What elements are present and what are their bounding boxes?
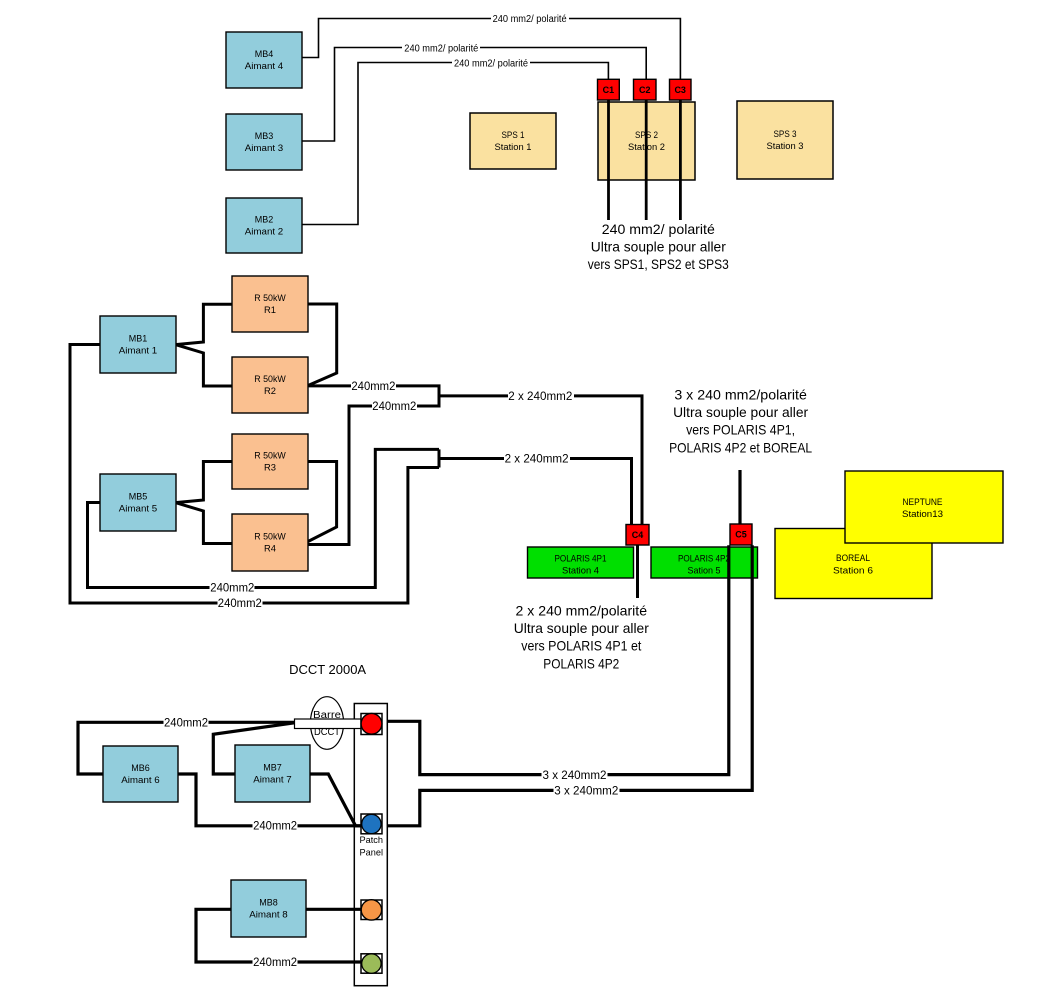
note cables to POLARIS/BOREAL [669,387,812,456]
svg-text:Aimant 7: Aimant 7 [253,775,292,786]
svg-text:2 x 240mm2: 2 x 240mm2 [508,391,572,403]
svg-text:MB7: MB7 [263,763,282,774]
svg-text:Aimant 2: Aimant 2 [245,227,284,238]
station POLARIS 4P2 [651,547,758,578]
label 3 x 240mm2 (upper) [542,769,608,782]
label 240mm2 (barre wire) [164,716,209,730]
wire MB1 to R1 R2 (wedge) [175,304,232,386]
svg-text:C1: C1 [603,85,615,96]
wire MB8 left loop to green point [196,909,361,962]
svg-text:240mm2: 240mm2 [372,401,416,413]
svg-text:240mm2: 240mm2 [210,583,254,595]
label 2 x 240mm2 (lower) [504,453,570,466]
label 2 x 240mm2 (upper) [508,390,574,403]
magnet MB7 [235,745,310,802]
svg-text:3 x 240mm2: 3 x 240mm2 [554,786,618,798]
label 240mm2 (MB1 loop) [218,597,263,611]
svg-text:POLARIS 4P1: POLARIS 4P1 [555,553,607,564]
svg-text:Ultra souple pour aller: Ultra souple pour aller [514,620,649,636]
junction2 bar [438,449,441,467]
svg-text:240mm2: 240mm2 [351,381,395,393]
svg-text:Station13: Station13 [902,509,943,520]
wire MB4 to C3 [302,19,680,80]
svg-text:R 50kW: R 50kW [254,374,286,385]
wire C4 down stub [636,545,639,598]
svg-text:Aimant 3: Aimant 3 [245,143,284,154]
cable drop from C1 [607,100,610,220]
svg-text:MB5: MB5 [129,492,148,503]
wire MB7 right to blue point [310,774,361,826]
wire R1 right join R2 [308,304,337,386]
label 240mm2 (blue wire) [253,819,298,833]
magnet MB4 [226,32,302,88]
station SPS2 [598,102,695,180]
station BOREAL [775,529,932,599]
svg-text:R 50kW: R 50kW [254,451,286,462]
wire MB1 left loop to junction2 [70,345,439,604]
resistor R4 [232,514,308,571]
wire MB6 left loop to barre [78,722,295,774]
svg-text:Aimant 5: Aimant 5 [119,504,158,515]
magnet MB2 [226,198,302,253]
svg-text:MB3: MB3 [255,131,274,142]
svg-text:R2: R2 [264,386,276,397]
svg-text:POLARIS 4P2: POLARIS 4P2 [678,553,730,564]
label 240mm2 (R4 wire) [372,400,417,414]
svg-text:NEPTUNE: NEPTUNE [903,497,943,508]
wire R3 right join R4 [308,462,337,542]
svg-text:MB8: MB8 [259,898,278,909]
svg-text:MB1: MB1 [129,334,148,345]
svg-text:vers SPS1, SPS2 et SPS3: vers SPS1, SPS2 et SPS3 [588,256,729,272]
svg-text:BOREAL: BOREAL [836,553,871,564]
svg-text:MB2: MB2 [255,215,274,226]
wire MB3 to C2 [302,48,646,142]
wire C5 up stub [738,470,741,524]
note cables to POLARIS 4P1/4P2 [514,603,649,672]
svg-text:R 50kW: R 50kW [254,532,286,543]
svg-text:POLARIS 4P2 et BOREAL: POLARIS 4P2 et BOREAL [669,439,812,455]
connector C3 [670,79,692,100]
svg-text:240 mm2/ polarité: 240 mm2/ polarité [454,59,528,70]
magnet MB1 [100,316,176,373]
patch point red [361,713,382,734]
svg-text:C5: C5 [735,530,747,541]
label DCCT 2000A [289,663,367,677]
magnet MB6 [103,746,178,802]
note cables to SPS [588,221,729,272]
svg-text:240 mm2/ polarité: 240 mm2/ polarité [404,44,478,55]
label 240 mm2/ polarité (top wire) [491,12,569,25]
svg-text:SPS 1: SPS 1 [502,130,525,141]
patch panel [354,704,387,986]
svg-text:Station 6: Station 6 [833,566,873,577]
wire MB8 right to orange point [306,908,361,911]
svg-text:Aimant 1: Aimant 1 [119,346,158,357]
wire R2 output to junction bar [308,386,439,545]
barre DCCT text [313,710,342,738]
wire 3x240mm2 right vertical (to blue point) [382,545,752,826]
label 240mm2 (green wire) [253,956,298,970]
svg-text:R4: R4 [264,544,277,555]
svg-text:vers POLARIS 4P1 et: vers POLARIS 4P1 et [521,638,641,654]
patch point blue [361,814,382,834]
wire 3x240mm2 left vertical (to red point) [382,545,729,774]
svg-text:C2: C2 [639,85,651,96]
station SPS1 [470,113,556,169]
svg-text:2 x 240mm2: 2 x 240mm2 [505,454,569,466]
wire merged 2x240mm2 to C4 (upper) [439,396,642,525]
resistor R1 [232,276,308,332]
resistor R3 [232,434,308,489]
svg-text:Aimant 4: Aimant 4 [245,61,284,72]
svg-text:240mm2: 240mm2 [253,957,297,969]
connector C1 [598,79,620,100]
svg-text:240mm2: 240mm2 [164,717,208,729]
wire MB6 right to blue point [178,774,361,826]
svg-text:DCCT: DCCT [314,727,340,738]
wire MB5 to R3 R4 (wedge) [175,462,232,544]
label 240 mm2/ polarité (middle wire) [402,42,480,55]
station NEPTUNE [845,471,1003,543]
station SPS3 [737,101,833,179]
label Patch Panel [360,835,384,859]
label 240 mm2/ polarité (lower wire) [452,57,530,70]
svg-text:Aimant 8: Aimant 8 [249,910,288,921]
svg-text:3 x 240 mm2/polarité: 3 x 240 mm2/polarité [674,387,807,403]
magnet MB5 [100,474,176,531]
svg-text:C4: C4 [632,530,644,541]
magnet MB3 [226,114,302,170]
cable drop from C3 [679,100,682,220]
patch point orange [361,900,382,920]
svg-text:SPS 3: SPS 3 [774,129,797,140]
magnet MB8 [231,880,306,937]
svg-text:MB4: MB4 [255,49,274,60]
svg-text:Barre: Barre [313,710,342,721]
svg-text:vers POLARIS 4P1,: vers POLARIS 4P1, [686,422,795,438]
svg-text:MB6: MB6 [131,763,150,774]
wire MB7 left to barre [213,723,294,774]
wire MB5 left loop to junction2 [88,449,440,587]
resistor R2 [232,357,308,413]
svg-text:DCCT 2000A: DCCT 2000A [289,663,367,677]
connector C4 [626,525,649,546]
svg-text:240 mm2/ polarité: 240 mm2/ polarité [602,221,715,237]
svg-text:Station 3: Station 3 [767,141,804,152]
svg-text:3 x 240mm2: 3 x 240mm2 [543,770,607,782]
svg-text:Aimant 6: Aimant 6 [121,775,160,786]
barre DCCT bar [295,719,362,729]
connector C5 [730,524,752,545]
barre DCCT ellipse [310,697,343,750]
svg-text:Ultra souple pour aller: Ultra souple pour aller [673,404,808,420]
svg-text:Panel: Panel [360,848,384,859]
svg-text:R3: R3 [264,463,276,474]
label 3 x 240mm2 (lower) [554,784,620,797]
station POLARIS 4P1 [528,547,634,578]
connector C2 [634,79,657,100]
wire merged 2x240mm2 to C4 (lower) [439,459,632,526]
svg-text:240 mm2/ polarité: 240 mm2/ polarité [493,14,567,25]
svg-text:C3: C3 [674,85,686,96]
svg-text:240mm2: 240mm2 [253,821,297,833]
svg-text:Station 1: Station 1 [495,142,532,153]
svg-text:Sation 5: Sation 5 [688,565,721,576]
svg-text:R 50kW: R 50kW [254,293,286,304]
wire MB2 to C1 [302,63,608,225]
label 240mm2 (MB5 loop) [210,581,255,595]
svg-text:Patch: Patch [360,835,384,846]
svg-text:Ultra souple pour aller: Ultra souple pour aller [591,239,726,255]
cable drop from C2 [645,100,648,220]
svg-text:R1: R1 [264,305,276,316]
svg-text:POLARIS 4P2: POLARIS 4P2 [543,655,619,671]
svg-text:Station 4: Station 4 [562,565,599,576]
label 240mm2 (R2 wire) [351,380,396,394]
patch point green [361,954,382,974]
svg-text:2 x 240 mm2/polarité: 2 x 240 mm2/polarité [516,603,648,619]
svg-text:240mm2: 240mm2 [218,598,262,610]
